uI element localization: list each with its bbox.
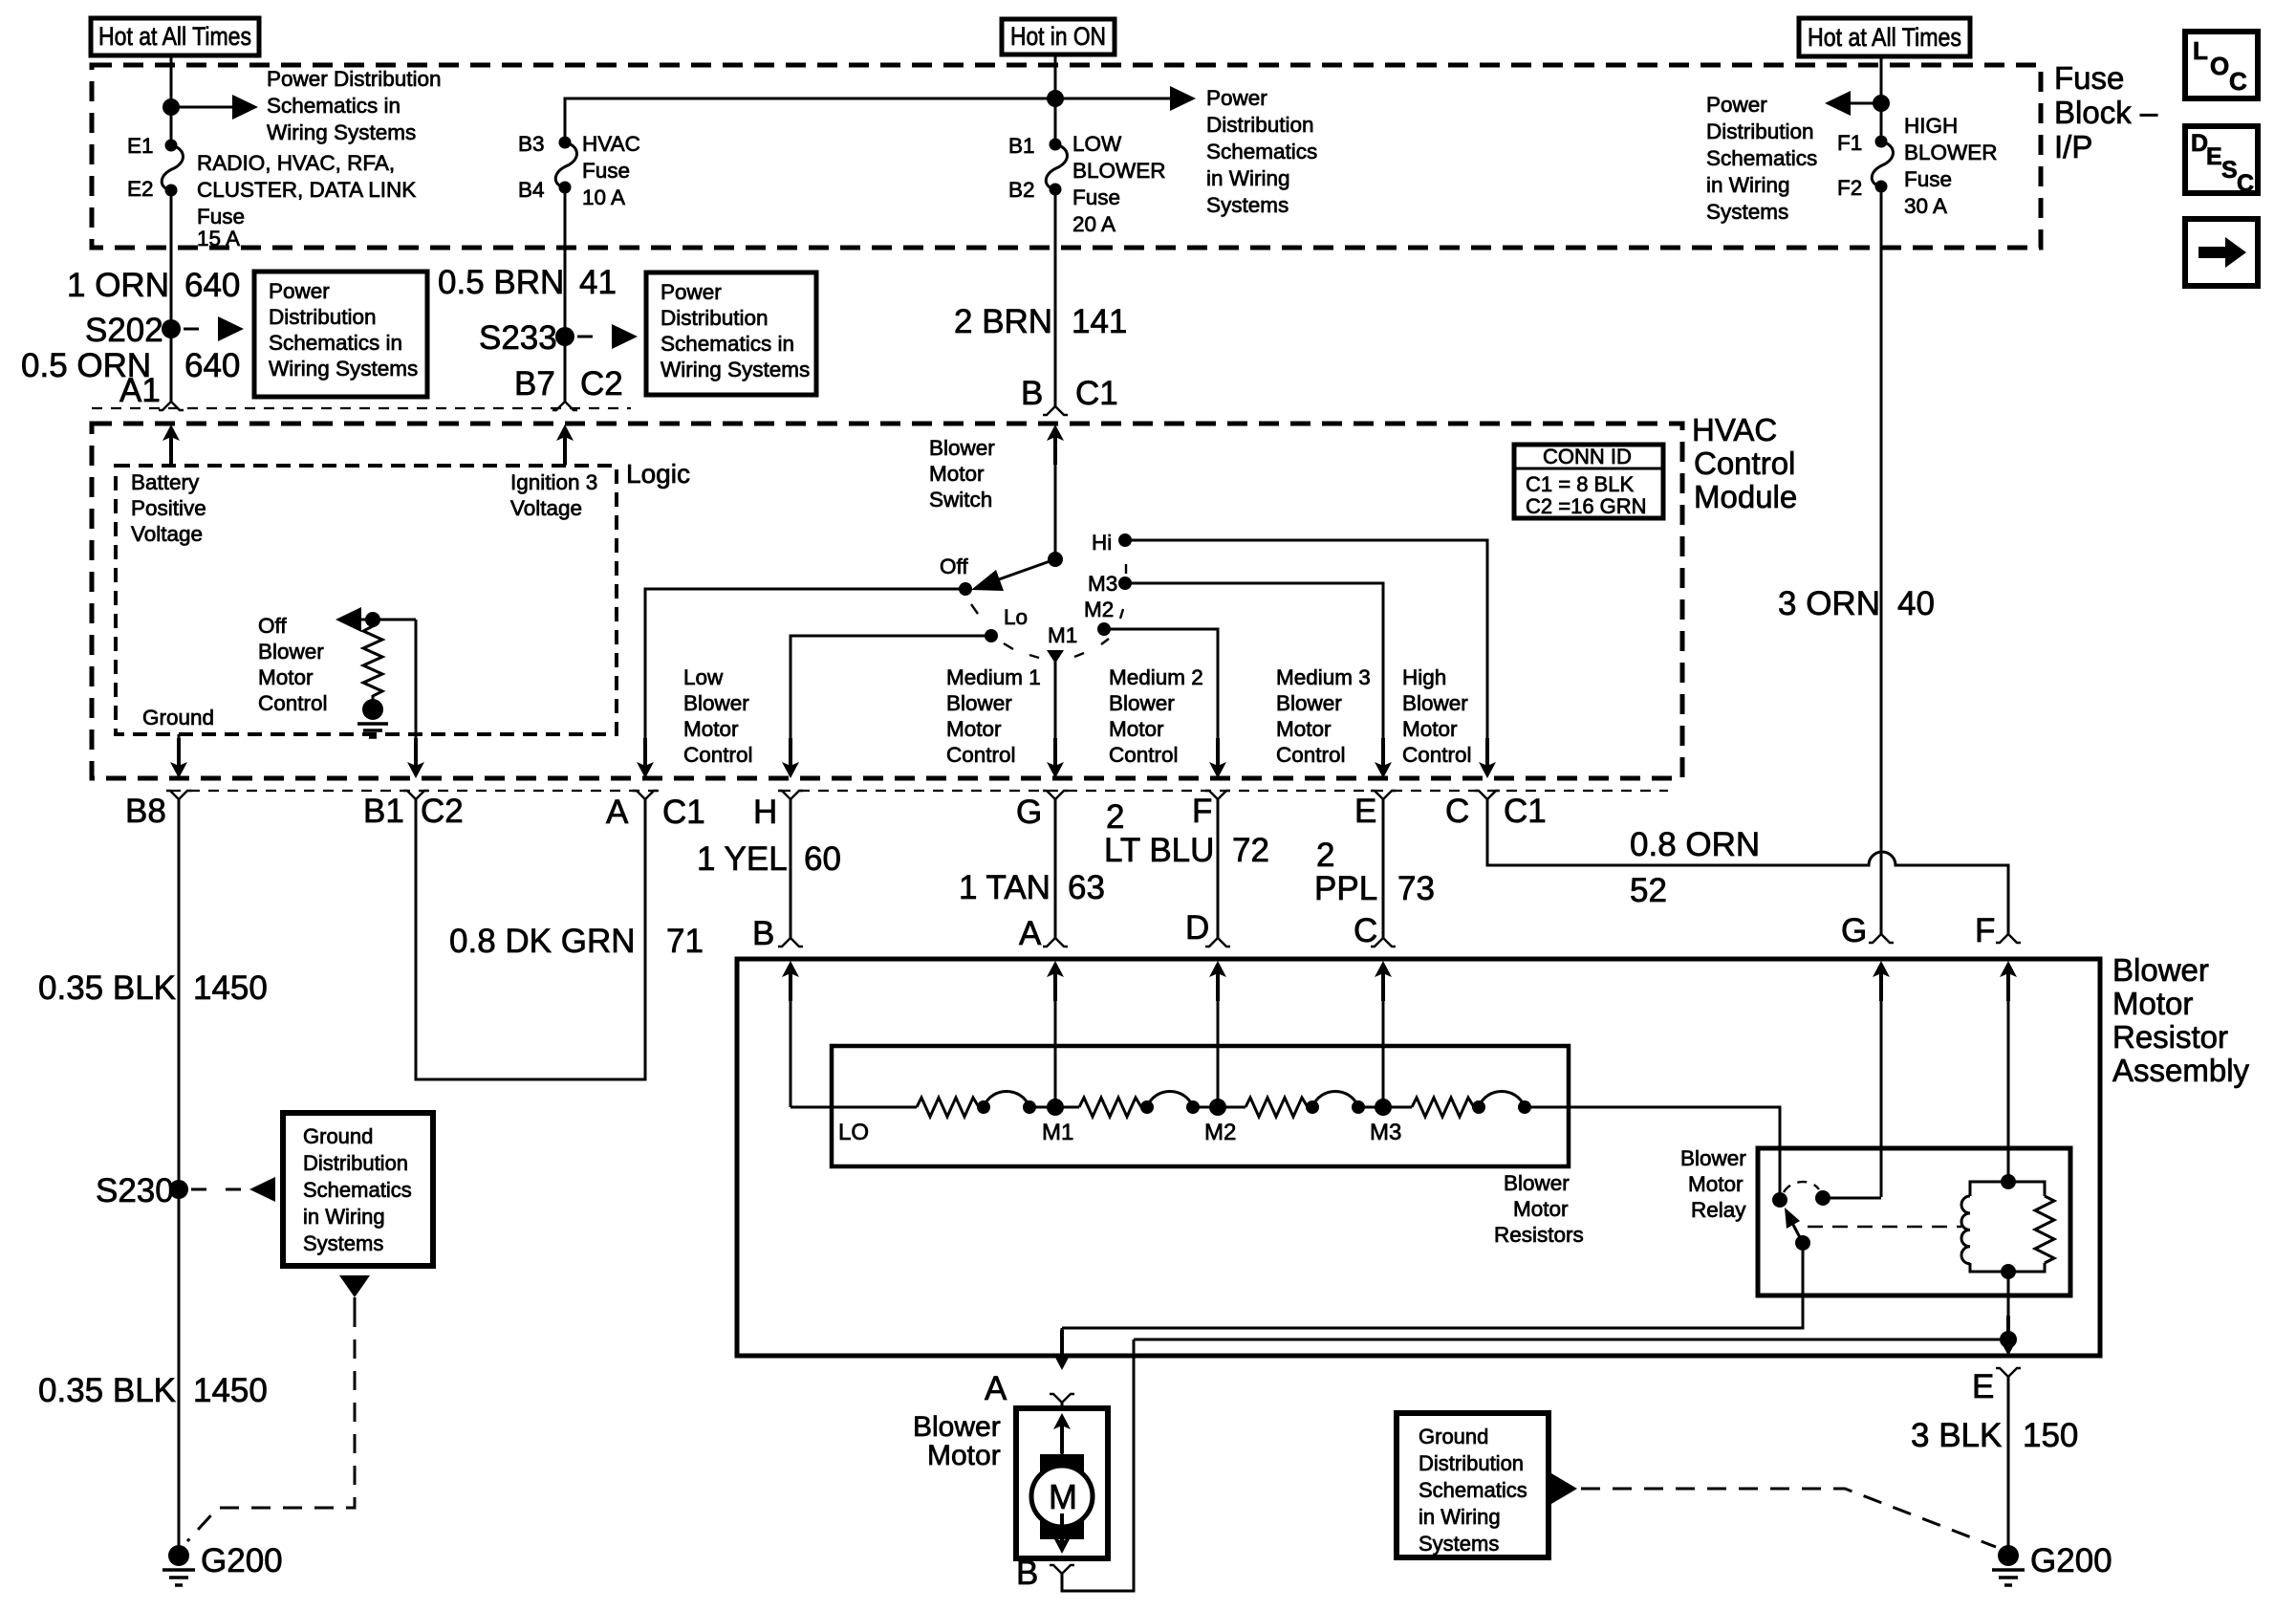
svg-text:G200: G200 — [201, 1542, 283, 1579]
svg-text:Medium 1: Medium 1 — [946, 665, 1041, 689]
svg-text:Medium 2: Medium 2 — [1109, 665, 1203, 689]
splice hump 1 — [977, 1092, 1036, 1115]
B1 B2 pin labels — [1008, 134, 1035, 202]
svg-text:in Wiring: in Wiring — [1419, 1505, 1501, 1529]
wire exit inner box to relay drop — [1525, 1107, 1780, 1200]
D entry arrow + wire to M2 — [1209, 961, 1226, 1107]
A1 pin label — [119, 372, 161, 409]
M3 label — [1370, 1120, 1401, 1145]
E fork + label — [1371, 791, 1396, 799]
wire label 0.8 DK GRN 71 — [449, 923, 704, 960]
relay box — [1758, 1148, 2070, 1295]
svg-text:640: 640 — [184, 347, 240, 384]
svg-text:0.5 BRN: 0.5 BRN — [438, 264, 564, 301]
LO label — [838, 1120, 869, 1145]
svg-text:G200: G200 — [2030, 1542, 2112, 1579]
wire label 1 TAN 63 — [959, 869, 1105, 906]
svg-text:Power: Power — [1706, 93, 1767, 117]
G fork + label — [1043, 791, 1068, 799]
wire B2 down to B connector — [1054, 189, 1057, 406]
svg-text:Ground: Ground — [303, 1124, 373, 1148]
svg-text:G: G — [1841, 912, 1867, 949]
Blower Motor Switch text — [929, 436, 995, 512]
svg-text:C1: C1 — [1504, 793, 1547, 830]
Hot in ON box — [1002, 19, 1115, 54]
connector fork A1 — [159, 402, 184, 410]
svg-text:S202: S202 — [85, 312, 163, 349]
E1 pin label — [127, 134, 154, 158]
svg-text:72: 72 — [1232, 832, 1269, 869]
E exit arrow below junction — [2000, 1316, 2017, 1356]
F1 F2 pin labels — [1837, 131, 1862, 200]
splice hump 2 — [1140, 1092, 1200, 1115]
switch pivot dot — [1048, 552, 1063, 567]
relay NO contact dot + wire to G wire — [1815, 1190, 1881, 1206]
svg-text:E1: E1 — [127, 134, 154, 158]
svg-text:A: A — [606, 794, 629, 831]
HIGH BLOWER fuse 30A — [1872, 136, 1893, 193]
svg-text:2 BRN: 2 BRN — [954, 303, 1052, 340]
motor M symbol — [1031, 1454, 1093, 1539]
svg-text:Motor: Motor — [946, 717, 1002, 741]
splice S202 — [85, 312, 181, 349]
svg-text:20 A: 20 A — [1072, 212, 1116, 236]
svg-text:Schematics: Schematics — [303, 1178, 412, 1202]
Ignition 3 Voltage text — [510, 470, 597, 520]
wire F2 down long to G fork — [1880, 186, 1883, 934]
motor arrow out — [1053, 1513, 1071, 1554]
svg-text:Fuse: Fuse — [582, 159, 630, 183]
svg-text:Distribution: Distribution — [303, 1151, 408, 1175]
svg-text:C2: C2 — [580, 365, 623, 403]
C entry arrow + wire to M3 — [1375, 961, 1392, 1107]
svg-text:M2: M2 — [1204, 1120, 1236, 1145]
svg-text:52: 52 — [1630, 872, 1667, 909]
svg-text:Medium 3: Medium 3 — [1276, 665, 1371, 689]
A fork + label at resistor assembly — [1043, 938, 1068, 947]
C fork + label at resistor assembly — [1371, 938, 1396, 947]
svg-text:0.35 BLK: 0.35 BLK — [38, 969, 176, 1007]
G200 ground right — [1992, 1542, 2112, 1585]
svg-text:Positive: Positive — [131, 496, 206, 520]
svg-text:Schematics in: Schematics in — [267, 94, 401, 118]
wire label 2 BRN 141 — [954, 303, 1127, 340]
fuse block I/P dashed box — [92, 65, 2041, 248]
Lo label + contact — [985, 605, 1028, 642]
svg-text:A: A — [1019, 915, 1042, 952]
Hot at All Times box left — [91, 18, 259, 55]
svg-text:Control: Control — [1109, 743, 1179, 767]
svg-text:Low: Low — [683, 665, 724, 689]
resistor chain: LO segment — [791, 1106, 917, 1109]
fuse name — [1904, 114, 1998, 218]
svg-text:3 ORN: 3 ORN — [1778, 585, 1880, 622]
svg-text:in Wiring: in Wiring — [303, 1205, 385, 1229]
svg-text:Voltage: Voltage — [131, 522, 203, 546]
svg-text:B: B — [752, 915, 774, 952]
svg-text:Hot at All Times: Hot at All Times — [1808, 23, 1961, 52]
svg-text:71: 71 — [666, 923, 704, 960]
Off Blower Motor Control text — [258, 614, 328, 715]
fuse name — [582, 132, 640, 209]
ground distribution box left — [283, 1113, 433, 1266]
svg-text:Motor: Motor — [683, 717, 739, 741]
wire from hot-in-on line left then down to B3 — [565, 98, 1055, 142]
svg-text:Motor: Motor — [1402, 717, 1458, 741]
junction node on left wire — [162, 98, 180, 116]
svg-text:Blower: Blower — [2112, 952, 2209, 988]
power distribution schematics box 2 — [646, 272, 816, 395]
svg-text:Schematics in: Schematics in — [661, 332, 794, 356]
svg-text:Logic: Logic — [626, 459, 690, 489]
F fork + label — [1205, 791, 1230, 799]
svg-text:2: 2 — [1316, 837, 1334, 874]
svg-text:Ground: Ground — [1419, 1425, 1488, 1448]
svg-text:15 A: 15 A — [197, 227, 240, 250]
svg-text:150: 150 — [2023, 1417, 2078, 1454]
CONN ID table — [1514, 445, 1663, 518]
svg-text:C: C — [2229, 67, 2247, 96]
relay coil parallel resistor loop — [1970, 1182, 2045, 1272]
svg-text:B7: B7 — [514, 365, 555, 403]
svg-text:F2: F2 — [1837, 176, 1862, 200]
svg-text:CONN ID: CONN ID — [1543, 445, 1632, 468]
wire E down to G200 — [2007, 1377, 2010, 1546]
svg-text:BLOWER: BLOWER — [1904, 141, 1998, 164]
Ground text — [142, 706, 214, 729]
svg-text:M: M — [1049, 1477, 1077, 1516]
svg-text:B4: B4 — [518, 178, 545, 202]
connector fork B — [1043, 406, 1068, 415]
junction dot on motor return — [2000, 1331, 2017, 1348]
svg-text:63: 63 — [1068, 869, 1105, 906]
svg-text:Control: Control — [1402, 743, 1472, 767]
Hi label + contact — [1092, 531, 1132, 555]
svg-text:Voltage: Voltage — [510, 496, 582, 520]
svg-text:A1: A1 — [119, 372, 161, 409]
B C1 pin labels — [1021, 375, 1118, 412]
svg-text:S: S — [2221, 157, 2238, 184]
Low Blower Motor Control text — [683, 665, 753, 767]
wire hot in ON down — [1054, 54, 1057, 144]
svg-text:D: D — [1185, 909, 1209, 947]
svg-text:M2: M2 — [1084, 598, 1114, 621]
wire label 0.8 ORN 52 — [1630, 826, 1760, 909]
power distribution text top-left — [267, 67, 442, 144]
motor return wire across — [1134, 1339, 2008, 1341]
resistor 4 — [1412, 1098, 1474, 1117]
wire from right hot box down — [1880, 56, 1883, 142]
G entry arrow + wire down to relay — [1873, 961, 1890, 1197]
svg-text:Control: Control — [946, 743, 1016, 767]
svg-text:Systems: Systems — [1706, 200, 1788, 224]
svg-text:L: L — [2193, 36, 2208, 65]
dashed arrow S233 to box — [577, 324, 638, 349]
M3 label + contact — [1088, 572, 1132, 596]
junction node — [1047, 90, 1064, 107]
svg-text:C: C — [1445, 793, 1469, 830]
B entry arrow + wire to LO — [782, 961, 799, 1107]
E wire (M3) down to C pin — [1382, 799, 1385, 938]
splice S230 — [96, 1172, 188, 1209]
fuse name text — [197, 151, 416, 250]
off control pull resistor (vertical zigzag) — [363, 620, 382, 700]
G200 ground left — [162, 1542, 283, 1585]
wire from Hot at All Times box down to E1 — [170, 55, 173, 145]
svg-text:C2: C2 — [421, 793, 464, 830]
svg-text:141: 141 — [1072, 303, 1127, 340]
svg-text:RADIO, HVAC, RFA,: RADIO, HVAC, RFA, — [197, 151, 395, 175]
E2 pin label — [127, 177, 154, 201]
wire label 2 PPL 73 — [1314, 837, 1435, 907]
LOC nav box — [2185, 32, 2258, 98]
svg-text:High: High — [1402, 665, 1446, 689]
A entry arrow + wire to M1 — [1047, 961, 1064, 1107]
svg-text:E: E — [2206, 143, 2222, 170]
svg-text:Blower: Blower — [913, 1411, 1001, 1443]
svg-text:Motor: Motor — [1109, 717, 1164, 741]
wire label 1 YEL 60 — [697, 840, 841, 878]
Logic label — [626, 459, 690, 489]
svg-text:Distribution: Distribution — [1206, 113, 1314, 137]
switch blade to Off contact — [971, 559, 1055, 591]
arrow right of box — [1551, 1473, 1577, 1504]
relay contact dashed arc — [1784, 1182, 1819, 1192]
svg-text:F: F — [1975, 912, 1995, 949]
dashed route to G200 — [187, 1308, 355, 1541]
svg-text:Motor: Motor — [2112, 986, 2193, 1021]
wire to M2 junction — [1193, 1099, 1245, 1116]
svg-text:in Wiring: in Wiring — [1206, 166, 1290, 190]
B fork + label at resistor assembly — [778, 938, 803, 947]
switch feed arrow + wire down to pivot — [1047, 425, 1064, 559]
switch arc dashes — [971, 564, 1126, 658]
svg-text:Power: Power — [661, 280, 722, 304]
wire label 1 ORN 640 — [67, 267, 240, 304]
svg-text:1450: 1450 — [193, 1372, 268, 1409]
motor B return wire — [1062, 1339, 1134, 1591]
wire into motor — [1061, 1403, 1064, 1409]
thin connector dashed line bottom right segment — [780, 790, 1668, 792]
svg-text:E2: E2 — [127, 177, 154, 201]
B1 C2 fork + labels — [403, 791, 428, 799]
blade wire down and left to motor — [1062, 1251, 1803, 1328]
relay blade with arrowhead — [1785, 1208, 1810, 1251]
svg-text:Motor: Motor — [929, 462, 985, 486]
svg-text:M3: M3 — [1370, 1120, 1401, 1145]
DESC nav box — [2185, 126, 2258, 197]
svg-text:Hot at All Times: Hot at All Times — [98, 22, 251, 51]
svg-text:S233: S233 — [479, 319, 557, 357]
svg-text:Systems: Systems — [1206, 193, 1289, 217]
svg-text:Blower: Blower — [929, 436, 995, 460]
svg-text:Motor: Motor — [1513, 1197, 1569, 1221]
svg-text:B1: B1 — [1008, 134, 1035, 158]
F entry arrow + wire down to relay coil — [2000, 961, 2017, 1180]
svg-text:10 A: 10 A — [582, 185, 625, 209]
svg-text:Off: Off — [258, 614, 287, 638]
svg-text:Fuse: Fuse — [197, 205, 245, 229]
svg-text:Switch: Switch — [929, 488, 992, 512]
svg-text:Blower: Blower — [1276, 691, 1342, 715]
svg-text:B8: B8 — [125, 793, 166, 830]
svg-text:Schematics: Schematics — [1206, 140, 1317, 163]
A wire down from blade wire — [1053, 1328, 1071, 1370]
resistor 2 — [1079, 1098, 1141, 1117]
svg-text:Distribution: Distribution — [1706, 120, 1814, 143]
arrow below box down — [339, 1275, 370, 1308]
B3 pin label — [518, 132, 545, 156]
PDS text 5 lines right — [1706, 93, 1817, 224]
svg-text:B: B — [1016, 1555, 1038, 1592]
C C1 fork + labels — [1475, 791, 1500, 799]
svg-text:C2 =16 GRN: C2 =16 GRN — [1526, 494, 1647, 518]
off control wire down to B1 — [407, 620, 424, 778]
svg-text:A: A — [985, 1370, 1007, 1407]
thin connector dashed line top — [92, 407, 631, 409]
svg-text:H: H — [753, 794, 777, 831]
svg-text:Blower: Blower — [1109, 691, 1175, 715]
svg-text:LOW: LOW — [1072, 132, 1122, 156]
svg-text:Resistors: Resistors — [1494, 1223, 1584, 1247]
svg-text:HVAC: HVAC — [582, 132, 640, 156]
svg-text:C: C — [2237, 170, 2254, 197]
svg-text:41: 41 — [579, 264, 617, 301]
svg-text:30 A: 30 A — [1904, 194, 1947, 218]
assembly outer box — [737, 959, 2100, 1356]
B8 pin label — [125, 793, 166, 830]
junction node — [1873, 95, 1890, 112]
svg-text:Systems: Systems — [1419, 1532, 1499, 1556]
svg-text:C1: C1 — [1075, 375, 1118, 412]
M1 label + arc bottom arrow — [1047, 623, 1077, 664]
wire label 0.5 ORN 640 — [21, 347, 240, 384]
svg-text:Motor: Motor — [1276, 717, 1332, 741]
Off contact wire to A pin — [637, 589, 965, 778]
D fork + label — [1205, 938, 1230, 947]
wire label 0.35 BLK 1450 upper — [38, 969, 268, 1007]
Blower Motor Resistors label — [1494, 1171, 1584, 1247]
svg-text:Blower: Blower — [683, 691, 749, 715]
High Blower Motor Control text — [1402, 665, 1472, 767]
svg-text:60: 60 — [804, 840, 841, 878]
svg-text:Power Distribution: Power Distribution — [267, 67, 442, 91]
motor box — [1016, 1408, 1108, 1558]
svg-text:M3: M3 — [1088, 572, 1117, 596]
logic inner dashed box — [116, 466, 617, 734]
svg-text:40: 40 — [1897, 585, 1935, 622]
svg-text:in Wiring: in Wiring — [1706, 173, 1790, 197]
off control arrow left — [336, 607, 416, 632]
wire label 3 BLK 150 — [1911, 1417, 2078, 1454]
svg-text:LO: LO — [838, 1120, 869, 1145]
actuation dashed link — [1808, 1226, 1961, 1228]
Off label — [940, 555, 968, 578]
svg-text:Control: Control — [683, 743, 753, 767]
svg-text:0.35 BLK: 0.35 BLK — [38, 1372, 176, 1409]
Blower Motor Resistor Assembly label — [2112, 952, 2250, 1088]
ignition feed arrow into module — [556, 425, 574, 466]
Hot at All Times box right — [1799, 18, 1970, 56]
arrow nav box — [2185, 219, 2258, 286]
wire B4 down to B7 — [564, 187, 567, 402]
svg-text:B1: B1 — [363, 793, 404, 830]
svg-text:Fuse: Fuse — [1904, 167, 1952, 191]
off control junction dot — [365, 612, 380, 627]
svg-text:CLUSTER, DATA LINK: CLUSTER, DATA LINK — [197, 178, 416, 202]
svg-text:HIGH: HIGH — [1904, 114, 1958, 138]
svg-text:Wiring Systems: Wiring Systems — [661, 358, 810, 381]
svg-text:M1: M1 — [1048, 623, 1077, 647]
svg-text:I/P: I/P — [2054, 129, 2092, 164]
svg-text:Off: Off — [940, 555, 968, 578]
M2 label — [1204, 1120, 1236, 1145]
B fork + label below motor — [1050, 1565, 1074, 1574]
svg-text:73: 73 — [1397, 870, 1435, 907]
svg-text:1450: 1450 — [193, 969, 268, 1007]
relay coil loops — [1961, 1196, 1970, 1264]
svg-text:M1: M1 — [1042, 1120, 1073, 1145]
svg-text:Schematics: Schematics — [1706, 146, 1817, 170]
svg-text:PPL: PPL — [1314, 870, 1377, 907]
B4 pin label — [518, 178, 545, 202]
H wire down to B pin of resistor assembly — [790, 799, 792, 938]
Blower Motor Relay label — [1680, 1146, 1746, 1222]
splice S233 — [479, 319, 574, 357]
svg-text:F: F — [1192, 793, 1212, 830]
battery feed arrow into module — [162, 425, 180, 466]
svg-text:3 BLK: 3 BLK — [1911, 1417, 2002, 1454]
0.8 ORN 52 wire from C C1 to relay area with hop over 3 ORN — [1487, 799, 2008, 934]
M1 wire down to G pin — [1047, 662, 1064, 778]
coil bottom node — [2001, 1264, 2016, 1279]
svg-text:C: C — [1354, 912, 1377, 949]
svg-text:Module: Module — [1694, 479, 1797, 514]
Lo contact wire to H pin — [782, 636, 991, 778]
svg-text:Hi: Hi — [1092, 531, 1112, 555]
ground wire out of logic box — [170, 734, 187, 778]
power distribution schematics box 1 — [254, 272, 427, 397]
svg-text:Relay: Relay — [1691, 1198, 1746, 1222]
coil return wire down to junction — [2007, 1272, 2010, 1339]
svg-text:2: 2 — [1106, 798, 1124, 836]
svg-text:Distribution: Distribution — [1419, 1451, 1524, 1475]
svg-text:Fuse: Fuse — [1072, 185, 1120, 209]
svg-text:640: 640 — [184, 267, 240, 304]
arrow right to PDS text — [1055, 86, 1196, 111]
svg-text:Block –: Block – — [2054, 95, 2158, 130]
svg-text:E: E — [1972, 1368, 1994, 1405]
relay common contact dot — [1772, 1192, 1787, 1208]
Medium 2 Blower Motor Control text — [1109, 665, 1203, 767]
fuse name — [1072, 132, 1166, 236]
svg-text:Blower: Blower — [258, 640, 324, 664]
svg-text:1 TAN: 1 TAN — [959, 869, 1051, 906]
svg-text:0.8 DK GRN: 0.8 DK GRN — [449, 923, 636, 960]
Battery Positive Voltage text — [131, 470, 206, 546]
resistor 1 — [917, 1098, 979, 1117]
M1 label — [1042, 1120, 1073, 1145]
arrow left to PDS text — [1825, 91, 1881, 116]
svg-text:Resistor: Resistor — [2112, 1019, 2228, 1055]
svg-text:Distribution: Distribution — [269, 305, 377, 329]
svg-text:LT BLU: LT BLU — [1104, 832, 1214, 869]
fuse RADIO/HVAC/RFA 15A — [162, 140, 183, 197]
wire label 2 LT BLU 72 — [1104, 798, 1269, 869]
svg-text:E: E — [1354, 793, 1376, 830]
Hi contact wire to C pin — [1125, 540, 1496, 778]
svg-text:C1 = 8 BLK: C1 = 8 BLK — [1526, 472, 1634, 496]
